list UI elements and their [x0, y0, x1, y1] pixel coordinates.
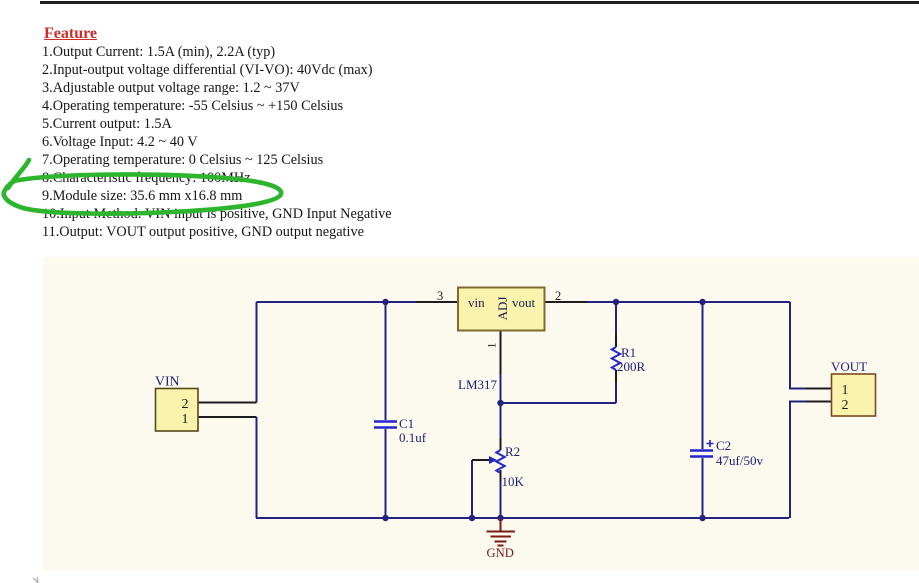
wire left rail lower: [256, 417, 258, 518]
capacitor C2 (polarized): [690, 451, 713, 457]
schematic panel background: [43, 257, 919, 571]
VOUT pin2 stub: [806, 401, 832, 403]
svg-text:C2: C2: [716, 438, 731, 453]
potentiometer R2: [496, 450, 504, 473]
wire right rail upper: [790, 302, 806, 389]
VOUT pin1 stub: [806, 388, 832, 390]
svg-text:C1: C1: [399, 416, 414, 431]
wire R2 wiper vertical: [471, 460, 473, 518]
wire C1 top: [385, 302, 387, 420]
wire C2 top: [702, 302, 704, 449]
wire top rail right: [587, 301, 790, 303]
svg-text:3: 3: [437, 289, 443, 303]
pin 3 stub LM317: [416, 301, 458, 303]
svg-text:VOUT: VOUT: [831, 359, 867, 374]
capacitor C1: [374, 422, 397, 428]
top rule: [40, 1, 919, 4]
VIN pin2 stub: [198, 402, 257, 404]
Feature heading: [44, 25, 97, 43]
svg-text:1: 1: [485, 343, 499, 349]
wire ADJ junction to R1 bottom: [501, 402, 617, 404]
svg-text:10K: 10K: [502, 474, 525, 489]
node top C2: [699, 299, 705, 305]
wiper arrow R2: [489, 456, 497, 464]
svg-text:200R: 200R: [617, 359, 646, 374]
wire bottom rail: [256, 517, 789, 519]
svg-text:ADJ: ADJ: [495, 297, 510, 321]
wire left rail upper: [256, 302, 258, 403]
svg-text:GND: GND: [487, 546, 514, 560]
wire ADJ to junction: [500, 374, 502, 403]
svg-text:R2: R2: [505, 444, 520, 459]
svg-text:1: 1: [182, 412, 189, 427]
resistor R1: [612, 347, 620, 370]
svg-text:1: 1: [842, 383, 849, 398]
svg-text:2: 2: [182, 397, 189, 412]
svg-text:R1: R1: [621, 345, 636, 360]
svg-text:vout: vout: [512, 295, 536, 310]
node bottom C2: [699, 515, 705, 521]
pin 2 stub LM317: [545, 301, 588, 303]
node bottom wiper: [469, 515, 475, 521]
wire C1 bottom: [385, 429, 387, 518]
connector VIN: [155, 374, 198, 432]
wire top rail left: [257, 301, 417, 303]
wire R1 top: [615, 302, 617, 334]
R2 wiper stub: [472, 459, 489, 461]
svg-text:0.1uf: 0.1uf: [399, 430, 427, 445]
svg-text:47uf/50v: 47uf/50v: [716, 453, 763, 468]
wire right rail lower: [790, 402, 806, 519]
wire R2 top: [500, 403, 502, 438]
wire R2 bottom: [500, 481, 502, 518]
svg-text:vin: vin: [468, 295, 485, 310]
wire R1 bottom: [615, 383, 617, 403]
stray mark bottom left: [33, 577, 38, 583]
node top R1: [613, 299, 619, 305]
svg-text:VIN: VIN: [155, 374, 180, 389]
regulator U1 LM317 box: [458, 288, 545, 331]
node top C1: [382, 299, 388, 305]
pin 1 stub LM317: [500, 331, 502, 375]
svg-text:2: 2: [555, 289, 561, 303]
node ADJ: [497, 400, 503, 406]
VIN pin1 stub: [198, 416, 257, 418]
node bottom C1: [382, 515, 388, 521]
feature list: [42, 43, 392, 241]
connector VOUT: [831, 359, 876, 416]
R2 pin stubs: [500, 438, 502, 481]
node bottom R2/GND: [497, 515, 503, 521]
ground: [487, 518, 516, 546]
green highlight ellipse: [4, 160, 281, 214]
svg-text:2: 2: [842, 398, 849, 413]
wire C2 bottom: [702, 458, 704, 518]
R1 pin stubs: [615, 334, 617, 383]
svg-text:LM317: LM317: [458, 377, 498, 392]
